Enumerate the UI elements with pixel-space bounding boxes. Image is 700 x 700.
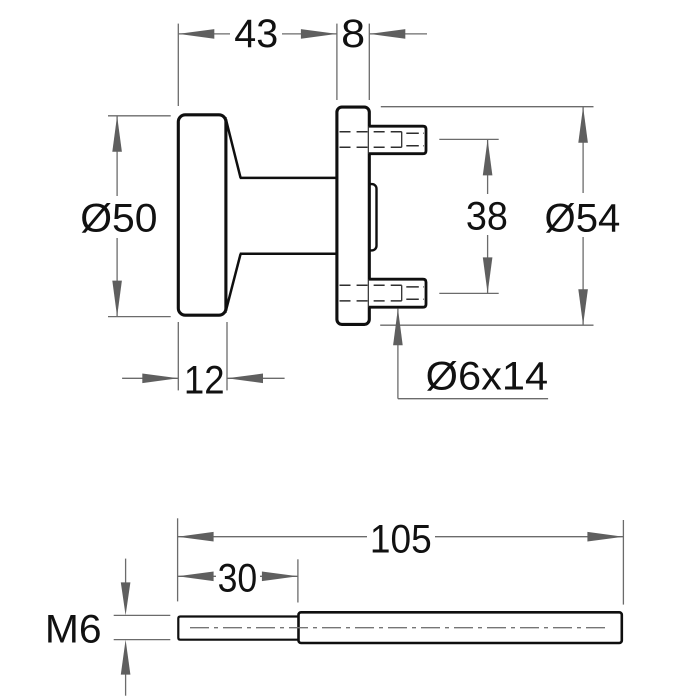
svg-text:M6: M6 xyxy=(45,607,102,651)
dim 105 extension right xyxy=(622,520,624,605)
dim 12 extension right xyxy=(226,322,228,390)
dim O54 line xyxy=(582,107,584,326)
dim 8 tail line xyxy=(369,33,427,35)
knob neck top xyxy=(240,177,338,180)
dim O50 top extension xyxy=(108,115,171,117)
dim 43 line xyxy=(178,33,337,35)
svg-text:105: 105 xyxy=(370,518,432,562)
svg-text:Ø50: Ø50 xyxy=(80,196,157,240)
dim 30 line xyxy=(178,575,298,577)
dim O54 arrow down xyxy=(578,289,588,325)
dim 30 extension right xyxy=(297,559,299,602)
text mask O50 xyxy=(100,196,135,238)
dim M6 top extension xyxy=(114,614,171,616)
lower stud thread dashed lines xyxy=(340,285,425,301)
dim O50 bottom extension xyxy=(108,316,171,318)
dim O50 arrow down xyxy=(112,281,122,317)
knob face plate xyxy=(178,115,226,315)
spindle centerline xyxy=(190,627,608,629)
dim M6 arrow down xyxy=(121,582,131,615)
dim 43 extension line left xyxy=(177,24,179,106)
dim 43 arrow left xyxy=(178,29,214,39)
dim 38 top extension xyxy=(439,138,498,140)
dim 12 extension left xyxy=(177,322,179,390)
dim O54 bottom extension xyxy=(380,324,593,326)
rose plate xyxy=(337,107,369,324)
svg-text:30: 30 xyxy=(218,556,258,600)
dim O50 line xyxy=(116,116,118,317)
svg-text:38: 38 xyxy=(466,195,508,239)
dim O54 arrow up xyxy=(578,107,588,143)
dim 105/30 extension left xyxy=(177,518,179,601)
boss on back of rose plate xyxy=(369,184,376,250)
leader O6x14 underline xyxy=(398,398,548,400)
dim 38 arrow down xyxy=(483,257,493,293)
cone lower edge xyxy=(226,254,241,311)
dim 105 arrow left xyxy=(178,532,214,542)
spindle main rod xyxy=(299,612,622,643)
dim M6 bottom extension xyxy=(114,639,171,641)
text mask 38 xyxy=(463,194,510,235)
svg-text:Ø54: Ø54 xyxy=(545,196,621,240)
dim M6 arrow up xyxy=(121,640,131,675)
leader O6x14 vertical line xyxy=(397,309,399,399)
dim 12 tail left xyxy=(122,377,178,379)
dim 105 line xyxy=(178,536,624,538)
dim 30 arrow right xyxy=(262,572,298,582)
svg-text:8: 8 xyxy=(341,12,365,56)
dim 30 arrow left xyxy=(178,572,214,582)
knob face right edge line xyxy=(225,117,227,313)
svg-text:Ø6x14: Ø6x14 xyxy=(426,354,548,398)
dim M6 arrow tail down xyxy=(125,674,127,696)
text mask 43 xyxy=(230,20,282,48)
svg-text:43: 43 xyxy=(234,12,278,56)
text mask 105 xyxy=(367,520,435,556)
dim 38 line xyxy=(487,139,489,293)
dim 8 extension line right xyxy=(368,24,370,100)
dim 43 arrow right xyxy=(301,29,337,39)
upper stud thread depth line xyxy=(401,132,403,148)
dim 43/8 extension line middle xyxy=(336,24,338,100)
cone upper edge xyxy=(226,119,241,178)
knob neck bottom xyxy=(240,253,338,256)
leader O6x14 arrow xyxy=(393,308,403,345)
dim O50 arrow up xyxy=(112,116,122,152)
svg-text:12: 12 xyxy=(184,358,225,402)
threaded section M6 xyxy=(178,617,298,640)
dim 12 arrow left xyxy=(142,374,178,384)
dim 12 arrow right xyxy=(227,374,263,384)
dim 12 tail right xyxy=(227,377,285,379)
upper stud M6 xyxy=(369,126,426,154)
dim O54 top extension xyxy=(381,106,594,108)
dim 8 arrow xyxy=(369,29,405,39)
dim 38 bottom extension xyxy=(439,292,498,294)
upper stud thread dashed lines xyxy=(340,132,425,148)
text mask 30 xyxy=(216,561,260,593)
dim 105 arrow right xyxy=(587,532,623,542)
text mask O54 xyxy=(542,193,622,237)
lower stud thread depth line xyxy=(401,285,403,301)
dim 38 arrow up xyxy=(483,139,493,175)
lower stud M6 xyxy=(369,279,426,307)
dim M6 arrow tail up xyxy=(125,559,127,583)
